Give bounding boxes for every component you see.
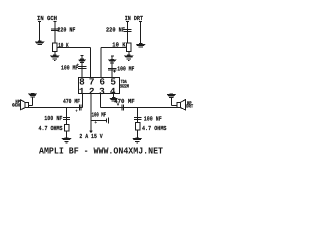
ground below left zobel [62,137,72,143]
wire resistor bottom (right 10 K) [128,51,130,55]
ground below pin 4 [109,97,118,102]
ground below right 10 K [124,55,134,61]
value label 470 MF (right) [114,98,135,105]
capacitor 100 MF at pin 5 [108,68,117,71]
svg-text:2822M: 2822M [119,83,129,89]
node IN GCH left terminal pad [38,21,41,22]
svg-text:GCH: GCH [12,103,20,109]
node IN DRT left terminal pad [126,21,129,22]
value label 10 K (left) [58,42,69,49]
wire pin 1 down [81,94,83,108]
svg-text:100 NF: 100 NF [44,115,62,122]
resistor 10 K (left channel) [53,43,58,51]
value label 220 NF (right) [106,27,125,34]
polarity mark right 470 MF [117,103,119,105]
capacitor 100 NF (left zobel) [63,117,70,120]
arrowhead pin 4 [112,92,115,95]
capacitor 470 MF (left output) [79,105,82,111]
wire right node to pin 6 (horizontal) [101,47,127,49]
svg-text:AMPLI BF - WWW.ON4XMJ.NET: AMPLI BF - WWW.ON4XMJ.NET [39,146,163,157]
svg-text:100 NF: 100 NF [144,115,162,122]
pin number 5 [110,76,116,87]
wire right output [100,107,177,109]
label 2 A 15 V [79,133,103,140]
label 2822M [119,83,129,89]
wire left node to pin 7 (horizontal) [57,46,90,48]
svg-text:IN DRT: IN DRT [125,15,144,22]
ground at IN DRT right terminal [136,43,146,48]
node IN DRT right terminal pad [139,21,142,22]
capacitor 220 NF (left channel) [51,28,59,31]
svg-text:DRT: DRT [186,104,193,110]
pin number 1 [79,86,85,97]
pin number 6 [99,76,105,87]
ground above left speaker [28,93,37,98]
svg-text:100 MF: 100 MF [61,64,78,71]
wire IN DRT right terminal [140,22,142,44]
svg-text:4: 4 [110,86,116,97]
wire ground to pin 8 [81,56,83,78]
svg-text:470 MF: 470 MF [114,98,135,105]
label HP (right) [187,100,192,106]
pin number 4 [110,86,116,97]
label TDA [121,79,127,85]
op-amp U1 TDA2822M body [78,77,119,93]
svg-text:100 MF: 100 MF [92,112,107,119]
polarity mark left 470 MF [76,110,78,112]
svg-text:100 MF: 100 MF [117,66,134,73]
value label 100 MF (pin 5) [117,66,134,73]
polarity mark supply capacitor [95,121,97,123]
ground at IN GCH left terminal [35,41,45,46]
value label 100 NF (right) [144,115,162,122]
resistor 4.7 OHMS (right zobel) [135,123,140,130]
label GCH [12,103,20,109]
ground above pin 5 capacitor [108,56,116,64]
node IN DRT label [125,15,144,22]
node IN GCH label [37,15,57,22]
svg-text:220 NF: 220 NF [57,27,75,34]
pin number 8 [79,76,85,87]
label HP (left) [15,99,20,105]
value label 100 MF (supply) [92,112,107,119]
caption AMPLI BF - WWW.ON4XMJ.NET [39,146,163,157]
value label 10 K (right) [112,41,125,48]
resistor 4.7 OHMS (left zobel) [64,125,69,132]
svg-text:4.7 OHMS: 4.7 OHMS [39,125,63,132]
capacitor 100 MF at pin 8 [78,66,87,69]
value label 100 MF (pin 8) [61,64,78,71]
pin number 2 [89,86,95,97]
wire left output [29,107,83,109]
wire pin 4 to ground [113,94,115,98]
speaker HP GCH [20,100,28,110]
value label 100 NF (left) [44,115,62,122]
pin number 7 [89,76,95,87]
svg-text:10 K: 10 K [58,42,69,49]
wire pin 2 supply [90,94,92,132]
node IN GCH right terminal pad [54,21,57,22]
wire IN GCH right terminal to resistor [54,22,56,43]
ground below right zobel [132,137,142,143]
capacitor 100 NF (right zobel) [134,117,141,120]
wire IN GCH left terminal [39,22,41,42]
ground below left 10 K [50,55,60,61]
value label 470 MF (left) [63,98,80,105]
pin number 3 [99,86,105,97]
ground above pin 8 capacitor [78,55,86,63]
wire ground to pin 5 [111,56,113,77]
svg-text:470 MF: 470 MF [63,98,80,105]
wire pin 3 down [99,94,101,108]
speaker HP DRT [177,100,185,110]
value label 4.7 OHMS (right) [142,125,167,132]
wire left zobel branch [66,108,68,139]
capacitor 220 NF (right channel) [124,29,132,32]
label DRT [186,104,193,110]
wire supply decoupling branch [91,119,106,121]
svg-text:2: 2 [89,86,95,97]
svg-text:4.7 OHMS: 4.7 OHMS [142,125,167,132]
polarity mark pin 5 capacitor [113,70,115,72]
resistor 10 K (right channel) [127,43,131,51]
arrowhead supply [89,131,93,134]
svg-text:2 A 15 V: 2 A 15 V [79,133,103,140]
wire down to pin 7 [89,47,91,77]
wire down to pin 6 [100,48,102,78]
value label 4.7 OHMS (left) [39,125,63,132]
capacitor 470 MF (right output) [121,105,124,111]
wire right zobel branch [137,108,139,139]
ground above right speaker [167,93,176,98]
svg-text:220 NF: 220 NF [106,27,125,34]
wire left speaker top terminal [29,97,33,105]
wire IN DRT left terminal to resistor [127,22,129,43]
wire right speaker top terminal [171,98,177,105]
value label 220 NF (left) [57,27,75,34]
wire resistor bottom (left 10 K) [54,51,56,55]
capacitor 100 MF (supply decoupling) [106,118,109,124]
polarity mark pin 8 capacitor [77,64,79,66]
svg-text:IN GCH: IN GCH [37,15,57,22]
